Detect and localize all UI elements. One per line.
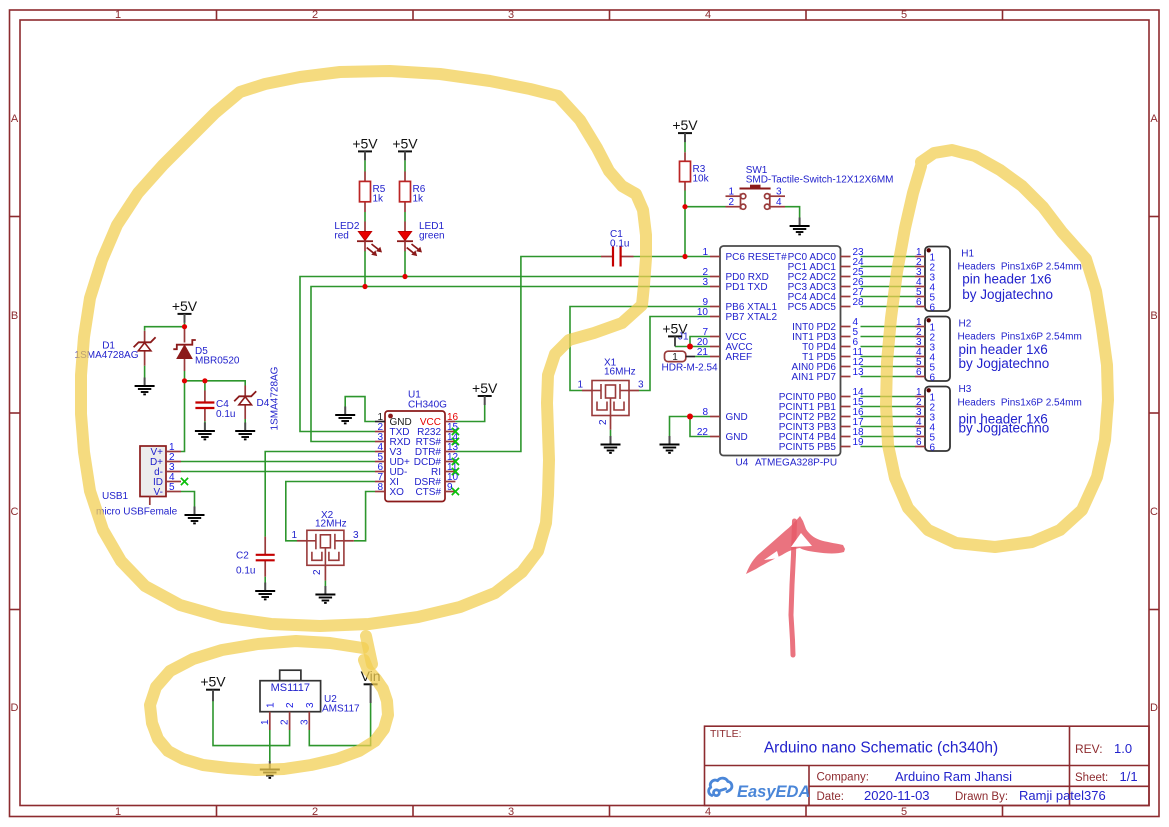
wire U4 pin4 to H2.1 <box>861 326 916 328</box>
svg-text:+5V: +5V <box>172 298 198 314</box>
svg-text:PB7 XTAL2: PB7 XTAL2 <box>726 312 778 323</box>
svg-text:1.0: 1.0 <box>1114 741 1132 756</box>
wire X1 pin3 to U4 PB7 <box>639 317 710 391</box>
svg-text:13: 13 <box>853 367 865 378</box>
svg-text:2: 2 <box>285 702 296 708</box>
svg-text:10k: 10k <box>693 173 710 184</box>
svg-text:9: 9 <box>447 482 453 493</box>
svg-text:B: B <box>1150 310 1157 322</box>
capacitor C4 <box>195 399 235 420</box>
svg-text:V-: V- <box>154 487 163 498</box>
diode D5 (schottky MBR0520) <box>173 340 240 366</box>
wire U4 pin18 to H3.5 <box>861 436 916 438</box>
resistor R3 <box>680 161 710 184</box>
wire U4 pin17 to H3.4 <box>861 426 916 428</box>
X2 pin labels <box>291 530 359 575</box>
svg-text:6: 6 <box>916 297 922 308</box>
wire U1 GND to ground <box>345 397 375 422</box>
no-connect X on U1 pin 9 <box>452 488 459 495</box>
wire +5V to R6 <box>404 161 406 172</box>
ground at D1 <box>135 378 155 395</box>
svg-text:3: 3 <box>776 187 782 198</box>
svg-text:red: red <box>334 231 348 242</box>
svg-text:6: 6 <box>916 367 922 378</box>
wire reset node to SW1 <box>685 206 726 208</box>
svg-text:19: 19 <box>853 437 865 448</box>
wire X1 pin2 to ground <box>610 430 612 436</box>
svg-text:1: 1 <box>260 719 271 725</box>
wire U1 XI to X2 pin1 <box>286 482 375 541</box>
junction reset node <box>682 254 687 259</box>
svg-text:3: 3 <box>508 9 514 21</box>
pin header H1 <box>915 247 1082 314</box>
no-connect X on USB1 ID pin <box>181 478 188 485</box>
wire U4 pin23 to H1.1 <box>861 256 916 258</box>
svg-text:1: 1 <box>728 187 734 198</box>
wire D5 top pin <box>184 327 186 343</box>
svg-text:1: 1 <box>115 806 121 818</box>
wire C2 bottom pin <box>264 560 266 577</box>
svg-text:H3: H3 <box>959 384 972 395</box>
diode D4 (zener) <box>234 391 256 405</box>
ground at X2 <box>315 586 335 603</box>
svg-text:H2: H2 <box>959 319 972 330</box>
svg-text:ATMEGA328P-PU: ATMEGA328P-PU <box>755 458 837 469</box>
connector USB1 micro USBFemale <box>96 442 181 518</box>
wire R6 lower pin <box>404 202 406 212</box>
wire D1 bottom pin <box>144 351 146 366</box>
svg-text:16MHz: 16MHz <box>604 366 636 377</box>
svg-text:10: 10 <box>697 307 709 318</box>
wire X2 pin2 to ground <box>324 581 326 586</box>
wire D4 top pin <box>244 386 246 397</box>
svg-text:SMD-Tactile-Switch-12X12X6MM: SMD-Tactile-Switch-12X12X6MM <box>746 175 894 186</box>
svg-text:Date:: Date: <box>817 791 845 803</box>
wire U4 pin6 to H2.3 <box>861 346 916 348</box>
wire R5 to LED2 <box>364 212 366 222</box>
wire node to C4 <box>204 381 206 391</box>
wire U4 pin27 to H1.5 <box>861 296 916 298</box>
wire U1 V3 to C2 <box>265 452 375 537</box>
wire C2 to ground <box>264 577 266 583</box>
svg-text:PD1 TXD: PD1 TXD <box>726 282 768 293</box>
pin header H3 <box>915 384 1082 454</box>
Vin net port <box>361 668 381 703</box>
svg-text:1: 1 <box>702 247 708 258</box>
svg-text:6: 6 <box>930 443 936 454</box>
IC U4 ATMEGA328P-PU <box>697 246 864 469</box>
wire USB d- to U1 UD- <box>181 471 375 473</box>
wire U4 pin25 to H1.3 <box>861 276 916 278</box>
wire MS1117 pin1 to ground <box>269 730 271 761</box>
svg-text:D4: D4 <box>257 398 270 409</box>
LED LED2 <box>334 221 382 256</box>
svg-text:2: 2 <box>312 806 318 818</box>
wire U4 pin5 to H2.2 <box>861 336 916 338</box>
svg-text:pin header 1x6: pin header 1x6 <box>959 272 1052 287</box>
svg-text:green: green <box>419 231 445 242</box>
wire +5V to R5 <box>364 161 366 172</box>
switch SW1 <box>726 165 894 209</box>
wire R6 top pin <box>404 172 406 182</box>
svg-text:4: 4 <box>705 9 711 21</box>
svg-text:C: C <box>11 506 19 518</box>
highlight stroke (loop around headers H1-H3) <box>886 150 1108 547</box>
no-connect X on U1 pin 12 <box>452 458 459 465</box>
junction C4 tap <box>202 378 207 383</box>
wire U4 pin28 to H1.6 <box>861 306 916 308</box>
svg-text:D: D <box>1150 702 1158 714</box>
wire D4 to ground <box>244 419 246 423</box>
junction VCC/AVCC <box>687 344 693 350</box>
wire U4 GND to ground <box>670 417 711 437</box>
title block <box>705 726 1150 805</box>
svg-text:Company:: Company: <box>817 772 869 784</box>
wire D1 top pin <box>144 331 146 343</box>
+5V port above R3 <box>672 117 698 142</box>
highlight stroke (loop around MS1117) <box>150 641 388 770</box>
highlight stroke (short tail above MS1117 loop) <box>366 636 372 664</box>
wire U4 pin13 to H2.6 <box>861 376 916 378</box>
svg-text:3: 3 <box>299 719 310 725</box>
svg-text:8: 8 <box>377 482 383 493</box>
svg-text:B: B <box>11 310 18 322</box>
wire C4 bottom pin <box>204 408 206 421</box>
wire +5V node to D1 <box>145 327 185 331</box>
svg-text:3: 3 <box>305 702 316 708</box>
svg-text:12MHz: 12MHz <box>315 519 347 530</box>
svg-text:C2: C2 <box>236 551 249 562</box>
svg-text:REV:: REV: <box>1075 742 1103 756</box>
wire C4 top pin <box>204 391 206 403</box>
svg-text:CH340G: CH340G <box>408 400 447 411</box>
svg-text:by Jogjatechno: by Jogjatechno <box>959 287 1054 302</box>
svg-text:2: 2 <box>728 197 734 208</box>
svg-text:+5V: +5V <box>672 117 698 133</box>
wire D1 to ground <box>144 366 146 378</box>
wire D5 to node <box>184 371 186 381</box>
wire SW1 pin4 to ground <box>785 207 800 218</box>
wire C2 top pin <box>264 537 266 555</box>
resistor R6 <box>400 181 426 204</box>
EasyEDA logo <box>709 778 732 795</box>
wire R6 to LED1 <box>404 212 406 222</box>
capacitor C1 <box>601 229 634 267</box>
svg-text:XO: XO <box>390 487 405 498</box>
wire MS1117 pin2 to +5V <box>213 701 290 746</box>
ground at SW1 <box>790 218 810 235</box>
LED LED1 <box>397 221 445 256</box>
svg-text:EasyEDA: EasyEDA <box>737 783 810 801</box>
svg-text:2: 2 <box>598 419 609 425</box>
svg-text:PC6 RESET#: PC6 RESET# <box>726 252 788 263</box>
svg-text:1k: 1k <box>413 193 425 204</box>
wire GND node to pin22 <box>690 417 710 437</box>
wire C4 to ground <box>204 421 206 423</box>
svg-text:3: 3 <box>702 277 708 288</box>
svg-text:Headers Pins1x6P 2.54mm: Headers Pins1x6P 2.54mm <box>958 397 1082 408</box>
svg-text:Drawn By:: Drawn By: <box>955 791 1008 803</box>
wire +5V stem joint <box>184 323 186 327</box>
svg-text:by Jogjatechno: by Jogjatechno <box>959 356 1050 371</box>
wire R5 lower pin <box>364 202 366 212</box>
ground at D4 <box>235 423 255 440</box>
svg-text:6: 6 <box>930 373 936 384</box>
svg-text:micro USBFemale: micro USBFemale <box>96 507 178 518</box>
svg-text:U4: U4 <box>736 458 749 469</box>
svg-text:0.1u: 0.1u <box>216 409 235 420</box>
wire U1-TXD to U4-PD0 (row) <box>300 277 710 432</box>
svg-text:21: 21 <box>697 347 709 358</box>
svg-text:pin header 1x6: pin header 1x6 <box>959 342 1048 357</box>
wire LED2 to TXD row <box>364 251 366 287</box>
svg-text:A: A <box>11 113 19 125</box>
svg-text:1: 1 <box>265 702 276 708</box>
junction LED1/RXD row <box>402 274 407 279</box>
regulator U2 AMS117 (MS1117) <box>260 670 360 730</box>
wire X1 pin2 stub <box>610 416 612 430</box>
ground at C4 <box>195 423 215 440</box>
svg-text:+5V: +5V <box>352 135 378 151</box>
svg-text:AREF: AREF <box>726 352 753 363</box>
wire J1 to AREF <box>695 356 710 358</box>
junction GND pins <box>687 414 693 420</box>
svg-text:2020-11-03: 2020-11-03 <box>864 788 930 803</box>
ground at U1 GND <box>335 407 355 424</box>
+5V port at MS1117 <box>200 674 226 702</box>
svg-text:1: 1 <box>291 530 297 541</box>
wire U4 pin19 to H3.6 <box>861 446 916 448</box>
wire U1 VCC to +5V <box>455 405 484 422</box>
svg-text:6: 6 <box>916 437 922 448</box>
wire USB V- to ground <box>181 492 195 507</box>
capacitor C2 <box>236 551 275 577</box>
svg-text:PCINT5 PB5: PCINT5 PB5 <box>779 442 837 453</box>
no-connect X on U1 pin 15 <box>452 428 459 435</box>
wire LED1 top pin <box>404 222 406 232</box>
wire U4 pin26 to H1.4 <box>861 286 916 288</box>
svg-text:6: 6 <box>930 303 936 314</box>
ground at C2 <box>255 583 275 600</box>
svg-text:H1: H1 <box>961 249 974 260</box>
IC U1 CH340G <box>375 390 459 502</box>
header J1 HDR-M-2.54 (AREF) <box>662 351 719 373</box>
annotation red arrow pointing up at U4 <box>791 521 795 655</box>
svg-text:1: 1 <box>577 380 583 391</box>
svg-text:5: 5 <box>901 9 907 21</box>
wire D4 bottom pin <box>244 405 246 419</box>
svg-text:5: 5 <box>169 482 175 493</box>
wire LED2 top pin <box>364 222 366 232</box>
svg-text:AIN1 PD7: AIN1 PD7 <box>792 372 837 383</box>
wire R5 top pin <box>364 172 366 182</box>
wire MS1117 pin3 to Vin <box>309 703 370 746</box>
+5V port at U4 VCC <box>662 320 688 346</box>
svg-text:A: A <box>1150 113 1158 125</box>
svg-text:MBR0520: MBR0520 <box>195 355 240 366</box>
wire C1 right to U4 pin1 <box>634 256 711 258</box>
svg-text:0.1u: 0.1u <box>610 239 629 250</box>
wire R3 top pin <box>684 152 686 161</box>
junction LED2/TXD row <box>362 284 367 289</box>
svg-text:3: 3 <box>353 530 359 541</box>
wire U4 pin15 to H3.2 <box>861 406 916 408</box>
crystal X1 16MHz <box>582 358 639 416</box>
svg-text:0.1u: 0.1u <box>236 566 255 577</box>
highlight stroke (big loop around USB/CH340 section) <box>81 71 646 626</box>
pin header H2 <box>915 317 1082 384</box>
ground at X1 <box>601 436 621 453</box>
wire U1 XO to X2 pin3 <box>354 492 375 541</box>
wire R3 bottom pin <box>684 182 686 191</box>
svg-text:MS1117: MS1117 <box>271 682 310 694</box>
wire AVCC node up to VCC <box>690 337 710 347</box>
diode D1 (zener) <box>134 337 156 351</box>
svg-text:4: 4 <box>705 806 711 818</box>
svg-text:PC5 ADC5: PC5 ADC5 <box>788 302 837 313</box>
svg-text:1: 1 <box>115 9 121 21</box>
no-connect X on U1 pin 11 <box>452 468 459 475</box>
+5V port above U1 <box>472 380 498 405</box>
wire LED1 to RXD row <box>404 251 406 277</box>
svg-text:+5V: +5V <box>662 320 688 336</box>
svg-text:C: C <box>1150 506 1158 518</box>
wire D5 bottom pin <box>184 359 186 372</box>
wire USB D+ to U1 UD+ <box>181 461 375 463</box>
wire R3 to reset node <box>684 191 686 257</box>
wire U4 pin24 to H1.2 <box>861 266 916 268</box>
svg-text:1: 1 <box>672 352 678 363</box>
no-connect X on U1 pin 14 <box>452 438 459 445</box>
svg-text:+5V: +5V <box>472 380 498 396</box>
svg-text:2: 2 <box>280 719 291 725</box>
svg-text:GND: GND <box>726 432 748 443</box>
junction R3/SW1 <box>682 204 687 209</box>
svg-text:2: 2 <box>312 9 318 21</box>
svg-text:1SMA4728AG: 1SMA4728AG <box>270 366 281 430</box>
svg-text:by Jogjatechno: by Jogjatechno <box>959 421 1050 436</box>
svg-text:HDR-M-2.54: HDR-M-2.54 <box>662 363 719 374</box>
wire USB V+ up to 5V node <box>181 381 185 452</box>
+5V port above R5 <box>352 135 378 160</box>
ground at U4 GND <box>660 436 680 453</box>
svg-text:1/1: 1/1 <box>1120 769 1138 784</box>
+5V port above D5 <box>172 298 198 323</box>
svg-text:D: D <box>11 702 19 714</box>
ground at MS1117 <box>260 761 280 778</box>
svg-text:28: 28 <box>853 297 865 308</box>
wire C1 left to DTR <box>455 257 601 452</box>
svg-text:AMS117: AMS117 <box>322 704 360 715</box>
X1 pin labels <box>577 380 644 426</box>
svg-text:3: 3 <box>638 380 644 391</box>
crystal X2 12MHz <box>297 510 354 565</box>
svg-text:5: 5 <box>901 806 907 818</box>
svg-text:+5V: +5V <box>392 135 418 151</box>
wire U4 pin16 to H3.3 <box>861 416 916 418</box>
svg-text:1k: 1k <box>373 193 385 204</box>
svg-text:8: 8 <box>702 407 708 418</box>
svg-text:Ramji patel376: Ramji patel376 <box>1019 788 1106 803</box>
wire X2 pin2 stub <box>324 565 326 580</box>
wire U4 pin11 to H2.4 <box>861 356 916 358</box>
ground at USB V- <box>185 507 205 524</box>
wire +5V to R3 <box>684 142 686 152</box>
svg-text:CTS#: CTS# <box>415 487 441 498</box>
wire U1-RXD to U4-PD1 (row) <box>311 287 710 442</box>
junction +5V/D1/D5 <box>182 324 187 329</box>
svg-text:22: 22 <box>697 427 709 438</box>
wire X1 pin1 to U4 PB6 <box>570 307 710 391</box>
label D4 <box>257 366 281 430</box>
svg-text:2: 2 <box>312 569 323 575</box>
svg-text:4: 4 <box>776 197 782 208</box>
svg-text:Sheet:: Sheet: <box>1075 772 1108 784</box>
+5V port above R6 <box>392 135 418 160</box>
wire U4 pin12 to H2.5 <box>861 366 916 368</box>
svg-text:TITLE:: TITLE: <box>710 728 742 740</box>
wire 5Vnode row to D4 <box>185 381 246 386</box>
junction D5/V+ node <box>182 378 187 383</box>
svg-text:+5V: +5V <box>200 674 226 690</box>
svg-text:USB1: USB1 <box>102 491 129 502</box>
wire U4 pin14 to H3.1 <box>861 396 916 398</box>
svg-text:Arduino nano Schematic (ch340h: Arduino nano Schematic (ch340h) <box>764 740 998 757</box>
wire +5V to VCC/AVCC <box>675 346 710 348</box>
svg-text:3: 3 <box>508 806 514 818</box>
label D1 <box>75 340 139 361</box>
svg-text:GND: GND <box>726 412 748 423</box>
resistor R5 <box>360 181 386 204</box>
svg-text:Arduino Ram Jhansi: Arduino Ram Jhansi <box>895 769 1012 784</box>
